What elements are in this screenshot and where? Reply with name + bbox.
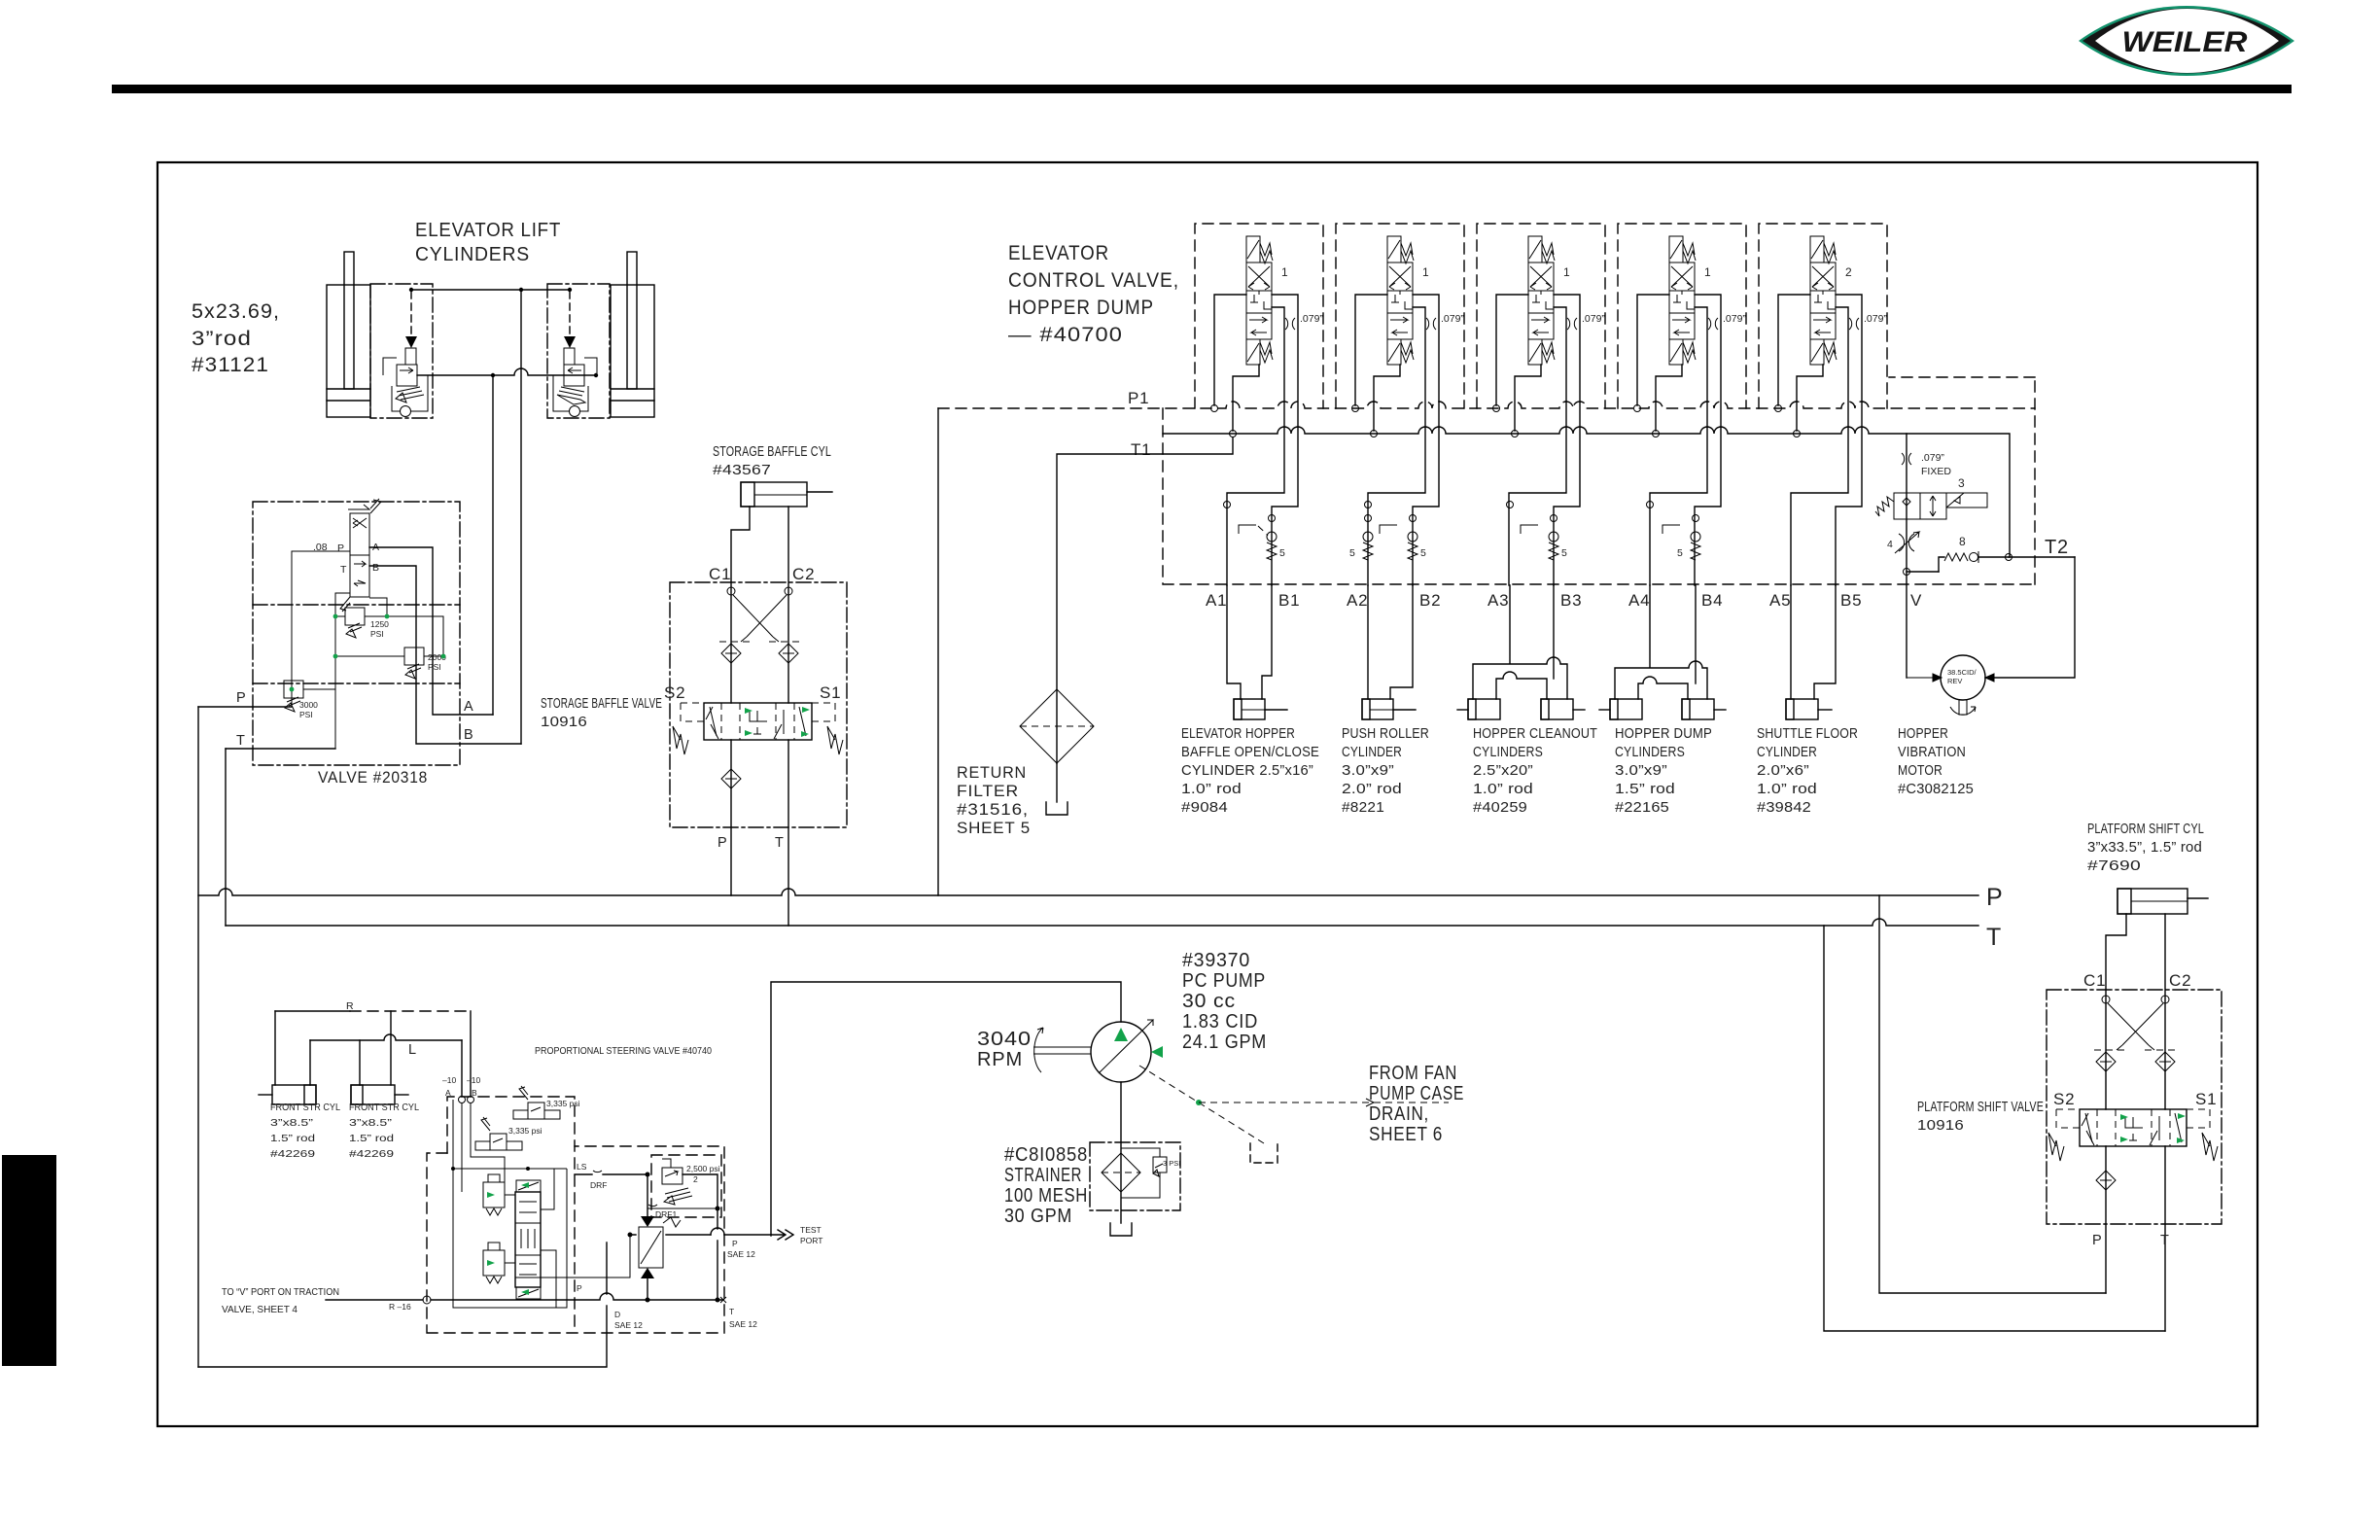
svg-text:5: 5	[1561, 547, 1567, 559]
svg-text:PLATFORM SHIFT CYL: PLATFORM SHIFT CYL	[2087, 822, 2204, 837]
svg-text:T2: T2	[2045, 537, 2069, 558]
svg-text:38.5CID/: 38.5CID/	[1947, 668, 1977, 677]
wire: R line	[275, 1010, 350, 1012]
svg-text:ELEVATOR LIFT: ELEVATOR LIFT	[415, 220, 561, 241]
wire: motor return to T2	[1985, 557, 2075, 678]
load check valve (section 4, B4)	[1662, 515, 1700, 561]
control valve section 1	[1195, 224, 1323, 585]
svg-text:T: T	[236, 733, 245, 749]
svg-text:#9084: #9084	[1181, 800, 1228, 816]
check valve 8	[1939, 535, 2009, 572]
svg-text:T: T	[340, 564, 347, 576]
svg-text:#39842: #39842	[1757, 800, 1811, 816]
svg-text:TO “V” PORT ON TRACTION: TO “V” PORT ON TRACTION	[222, 1286, 339, 1298]
svg-text:P: P	[2092, 1233, 2102, 1248]
platform shift directional valve body	[2048, 1109, 2218, 1161]
svg-text:.079”: .079”	[1723, 313, 1746, 325]
wire: rod-side interconnect between lift cylinders	[411, 289, 570, 291]
svg-text:B3: B3	[1560, 591, 1582, 610]
svg-text:–10: –10	[467, 1075, 480, 1085]
svg-text:S1: S1	[820, 683, 841, 702]
svg-text:5: 5	[1420, 547, 1426, 559]
svg-text:CONTROL VALVE,: CONTROL VALVE,	[1008, 269, 1179, 292]
wire: B1 work line to cylinder	[1262, 585, 1272, 699]
left edge black tab	[2, 1155, 56, 1366]
PC pump	[1033, 1020, 1163, 1082]
relief valve 3000 PSI	[284, 681, 335, 719]
elevator hopper baffle cylinder	[1234, 699, 1287, 719]
svg-text:ELEVATOR: ELEVATOR	[1008, 242, 1109, 264]
svg-text:A3: A3	[1487, 591, 1509, 610]
svg-text:T: T	[1986, 924, 2002, 951]
steering valve internal galleries	[453, 1100, 567, 1308]
svg-text:3.0”x9”: 3.0”x9”	[1615, 763, 1667, 779]
wire: valve 20318 work port B	[369, 566, 521, 744]
svg-text:PSI: PSI	[370, 629, 384, 639]
svg-text:LS: LS	[577, 1162, 587, 1172]
svg-text:#43567: #43567	[713, 463, 771, 478]
svg-text:2.5”x20”: 2.5”x20”	[1473, 763, 1533, 779]
svg-text:#C8I0858: #C8I0858	[1004, 1144, 1088, 1166]
pilot tap circles on A-lines	[1224, 502, 1231, 508]
svg-text:1.0” rod: 1.0” rod	[1181, 782, 1242, 797]
wire: platform C1 line	[2106, 914, 2126, 1109]
orifice .079 FIXED	[1902, 453, 1911, 465]
svg-text:B4: B4	[1701, 591, 1723, 610]
svg-text:#7690: #7690	[2087, 858, 2141, 874]
wire: P gallery inside valve 20318	[292, 551, 350, 707]
svg-text:A2: A2	[1347, 591, 1368, 610]
svg-text:HOPPER: HOPPER	[1898, 726, 1948, 742]
orifice diamond on P drop	[2096, 1171, 2116, 1190]
svg-text:FRONT STR CYL: FRONT STR CYL	[270, 1102, 340, 1113]
svg-text:S2: S2	[664, 683, 685, 702]
svg-text:B5: B5	[1840, 591, 1862, 610]
svg-text:A1: A1	[1206, 591, 1227, 610]
wire: A/B port drops	[462, 1011, 471, 1096]
svg-text:3,335 psi: 3,335 psi	[508, 1126, 542, 1136]
svg-text:VIBRATION: VIBRATION	[1898, 745, 1966, 760]
tank symbol (case drain)	[1250, 1143, 1277, 1163]
svg-text:T: T	[729, 1307, 734, 1316]
svg-text:PROPORTIONAL STEERING VALVE: PROPORTIONAL STEERING VALVE #40740	[535, 1045, 712, 1057]
svg-text:STORAGE BAFFLE CYL: STORAGE BAFFLE CYL	[713, 444, 831, 460]
storage baffle cylinder	[741, 482, 832, 507]
svg-text:CYLINDERS: CYLINDERS	[1615, 745, 1685, 760]
load check valve (section 1, B1)	[1239, 515, 1285, 561]
svg-text:3”x33.5”, 1.5” rod: 3”x33.5”, 1.5” rod	[2087, 840, 2202, 856]
svg-text:30 cc: 30 cc	[1182, 991, 1236, 1012]
svg-text:3”rod: 3”rod	[192, 328, 252, 350]
wire: D drain	[198, 1242, 607, 1367]
svg-text:#42269: #42269	[349, 1148, 394, 1160]
svg-text:2: 2	[1845, 265, 1852, 279]
green flow arrows (storage baffle valve)	[745, 708, 752, 714]
2-way valve 3	[1875, 476, 1987, 519]
wire: T drop to main tank line	[225, 749, 227, 926]
relief valve 3335 psi (lower)	[475, 1117, 542, 1150]
wire: L line	[310, 1034, 462, 1040]
svg-text:P: P	[577, 1283, 582, 1293]
svg-text:FROM FAN: FROM FAN	[1369, 1063, 1457, 1084]
svg-text:T: T	[775, 835, 784, 851]
junction dot LS-relief	[646, 1172, 650, 1177]
P1 pilot rail (dashed)	[938, 402, 2035, 408]
svg-text:#8221: #8221	[1342, 800, 1384, 816]
svg-text:#42269: #42269	[270, 1148, 315, 1160]
wire: platform T return to tank line	[1824, 926, 2165, 1331]
svg-text:.079”: .079”	[1864, 313, 1887, 325]
wire: valve 20318 work port A	[369, 547, 493, 715]
svg-text:#40259: #40259	[1473, 800, 1527, 816]
svg-text:L: L	[408, 1042, 416, 1058]
svg-text:T1: T1	[1131, 440, 1151, 459]
svg-text:DRAIN,: DRAIN,	[1369, 1103, 1429, 1125]
relief valve 3335 psi (upper)	[513, 1086, 580, 1119]
wire: relief to T	[682, 1174, 717, 1300]
wire: A2 work line	[1367, 585, 1369, 699]
control valve section 3	[1477, 224, 1605, 585]
wire: platform valve P drop	[2105, 1146, 2107, 1293]
svg-text:FIXED: FIXED	[1921, 466, 1951, 477]
svg-text:PSI: PSI	[299, 710, 313, 719]
wire: B2 work line	[1390, 585, 1413, 699]
svg-text:RETURN: RETURN	[957, 763, 1027, 782]
svg-text:PORT: PORT	[800, 1236, 822, 1245]
load check valve (section 2, A2)	[1349, 515, 1373, 561]
tank symbol (strainer)	[1110, 1223, 1132, 1236]
svg-text:5x23.69,: 5x23.69,	[192, 300, 280, 323]
wire: A5 work line	[1790, 585, 1792, 699]
svg-text:3040: 3040	[977, 1029, 1032, 1050]
svg-text:P: P	[337, 542, 344, 554]
svg-text:B2: B2	[1419, 591, 1441, 610]
svg-text:P: P	[1986, 884, 2004, 911]
schematic border frame	[157, 162, 2257, 1426]
storage baffle valve enclosure	[670, 582, 847, 827]
platform shift valve enclosure	[2047, 990, 2222, 1224]
svg-text:.079”: .079”	[1441, 313, 1464, 325]
svg-text:— #40700: — #40700	[1008, 324, 1123, 346]
svg-text:DRF: DRF	[590, 1180, 607, 1190]
orifice diamond on C2	[2155, 1052, 2175, 1071]
svg-text:#31121: #31121	[192, 354, 269, 376]
svg-text:WEILER: WEILER	[2122, 26, 2248, 58]
svg-text:SHEET 5: SHEET 5	[957, 819, 1031, 837]
elevator lift cylinder (right) body	[611, 252, 654, 417]
svg-text:FILTER: FILTER	[957, 782, 1019, 800]
svg-text:10916: 10916	[1917, 1118, 1964, 1134]
wire: A1 work line to cylinder	[1227, 585, 1241, 699]
svg-text:C1: C1	[709, 565, 731, 583]
svg-text:1.0” rod: 1.0” rod	[1757, 782, 1817, 797]
steering valve outer enclosure	[427, 1146, 724, 1333]
green flow arrows (platform shift valve)	[2120, 1114, 2128, 1120]
svg-text:T: T	[2160, 1233, 2169, 1248]
svg-text:PUSH ROLLER: PUSH ROLLER	[1342, 726, 1429, 742]
wire: cylinder 1 feeds	[275, 1011, 310, 1085]
wire: B3 work line + H-link	[1496, 585, 1554, 699]
svg-text:PUMP CASE: PUMP CASE	[1369, 1083, 1464, 1104]
strainer element	[1102, 1153, 1140, 1192]
svg-text:B: B	[464, 727, 473, 743]
wire: C1 line	[731, 507, 750, 703]
orifice diamond on C1	[721, 644, 741, 663]
tank rail T inside bank	[1163, 427, 2010, 557]
svg-text:2: 2	[693, 1174, 698, 1184]
load check valve (section 2, B2)	[1380, 515, 1426, 561]
svg-text:1.0” rod: 1.0” rod	[1473, 782, 1533, 797]
junction circles	[1904, 569, 1910, 576]
svg-text:FRONT STR CYL: FRONT STR CYL	[349, 1102, 419, 1113]
counterbalance valve block (left cylinder)	[370, 284, 433, 418]
svg-text:DRF1: DRF1	[655, 1209, 677, 1219]
svg-text:VALVE #20318: VALVE #20318	[318, 768, 428, 787]
svg-text:BAFFLE OPEN/CLOSE: BAFFLE OPEN/CLOSE	[1181, 745, 1319, 760]
svg-text:5: 5	[1349, 547, 1355, 559]
wire: T return line	[431, 1293, 723, 1300]
DRF1 orifice line	[647, 1207, 717, 1209]
pilot-to-open cross lines (platform shift valve)	[2094, 996, 2176, 1050]
orifice diamond on C2	[779, 644, 798, 663]
svg-text:2.0”x6”: 2.0”x6”	[1757, 763, 1809, 779]
shuttle floor cylinder	[1786, 699, 1832, 719]
svg-text:#31516,: #31516,	[957, 800, 1029, 819]
push roller cylinder	[1362, 699, 1416, 719]
svg-text:B: B	[372, 562, 379, 574]
svg-text:5: 5	[1677, 547, 1683, 559]
svg-text:30 GPM: 30 GPM	[1004, 1206, 1072, 1227]
svg-text:3 PSI: 3 PSI	[1163, 1159, 1180, 1168]
elevator lift cylinder (left) body	[327, 252, 370, 417]
control valve section 4	[1618, 224, 1746, 585]
load check valve (section 3, B3)	[1521, 515, 1567, 561]
svg-text:1250: 1250	[370, 619, 389, 629]
svg-text:CYLINDER 2.5”x16”: CYLINDER 2.5”x16”	[1181, 763, 1313, 779]
wire: B4 work line + H-link	[1638, 585, 1696, 699]
svg-text:SAE 12: SAE 12	[727, 1249, 755, 1259]
hopper cleanout cylinder (right)	[1541, 699, 1585, 719]
wire: T gallery inside valve 20318	[335, 593, 350, 749]
svg-text:1.83 CID: 1.83 CID	[1182, 1011, 1258, 1032]
steering valve left compartment	[447, 1097, 575, 1333]
junction dots (valve 20318)	[333, 614, 338, 619]
valve bank envelope (dashed)	[1163, 377, 2035, 584]
hopper vibration motor	[1907, 655, 1994, 715]
svg-text:R –16: R –16	[389, 1302, 411, 1312]
wire: R -16 supply	[326, 1299, 423, 1301]
svg-text:–10: –10	[442, 1075, 456, 1085]
wire: platform valve T drop	[2164, 1146, 2166, 1331]
svg-text:HOPPER DUMP: HOPPER DUMP	[1008, 297, 1154, 319]
wire: storage baffle valve T drop	[787, 740, 789, 926]
logic element (steering priority)	[639, 1174, 681, 1300]
orifice diamond on P drop	[721, 769, 741, 788]
pilot-to-open cross lines (storage baffle valve)	[719, 587, 800, 642]
wire: P1 drop to pressure line	[937, 408, 939, 895]
svg-text:2.0” rod: 2.0” rod	[1342, 782, 1402, 797]
svg-text:ELEVATOR HOPPER: ELEVATOR HOPPER	[1181, 726, 1295, 742]
wire: V supply line	[1906, 434, 1907, 678]
svg-text:P: P	[732, 1239, 738, 1248]
svg-text:STORAGE BAFFLE VALVE: STORAGE BAFFLE VALVE	[541, 696, 662, 712]
test port arrow	[771, 1230, 793, 1240]
svg-text:STRAINER: STRAINER	[1004, 1165, 1082, 1186]
svg-text:3: 3	[1958, 476, 1965, 490]
wire: cylinder 2 feeds	[360, 1011, 391, 1085]
svg-text:PSI: PSI	[428, 662, 441, 672]
svg-text:#C3082125: #C3082125	[1898, 782, 1974, 797]
main tank line T	[226, 919, 1978, 926]
svg-text:#22165: #22165	[1615, 800, 1669, 816]
WEILER logo	[2079, 6, 2294, 76]
strainer enclosure	[1090, 1142, 1180, 1210]
svg-text:1: 1	[1281, 265, 1288, 279]
svg-text:8: 8	[1959, 535, 1966, 548]
main pressure line P	[198, 889, 1978, 895]
hopper cleanout cylinder (left)	[1457, 699, 1500, 719]
control valve section 5	[1759, 224, 1887, 585]
solenoid valve (valve 20318 pilot)	[340, 499, 381, 612]
wire: storage baffle valve P drop	[730, 740, 732, 895]
wire: platform C2 line	[2164, 914, 2166, 1109]
svg-text:V: V	[1910, 591, 1922, 610]
wire: drop from piston-side line to valve 20318 port A	[492, 375, 494, 715]
wire: P line to test port	[630, 1234, 771, 1236]
wire: check-8 branch	[1907, 571, 1939, 573]
svg-text:C1: C1	[2083, 971, 2106, 990]
svg-text:PC PUMP: PC PUMP	[1182, 970, 1266, 992]
svg-text:PLATFORM SHIFT VALVE: PLATFORM SHIFT VALVE	[1917, 1100, 2044, 1115]
svg-text:P: P	[717, 835, 727, 851]
svg-text:3”x8.5”: 3”x8.5”	[349, 1117, 393, 1129]
hopper dump cylinder (left)	[1599, 699, 1642, 719]
svg-text:A4: A4	[1628, 591, 1650, 610]
svg-text:3”x8.5”: 3”x8.5”	[270, 1117, 314, 1129]
svg-text:B1: B1	[1278, 591, 1300, 610]
svg-text:.079”: .079”	[1300, 313, 1323, 325]
wire: P drop to main pressure line	[197, 707, 199, 1367]
svg-text:C2: C2	[2169, 971, 2191, 990]
svg-text:R: R	[346, 1000, 354, 1012]
port circles A B	[459, 1097, 466, 1103]
svg-text:SHEET 6: SHEET 6	[1369, 1124, 1443, 1145]
compensator valve (upper)	[483, 1174, 505, 1215]
platform shift cylinder	[2117, 889, 2208, 914]
svg-text:VALVE, SHEET 4: VALVE, SHEET 4	[222, 1304, 297, 1315]
strainer bypass relief 3 PSI	[1121, 1148, 1180, 1198]
T2 line	[2009, 556, 2075, 558]
svg-text:SAE 12: SAE 12	[729, 1319, 757, 1329]
svg-text:D: D	[614, 1310, 620, 1319]
front steering cylinder 2	[351, 1085, 408, 1104]
svg-text:4: 4	[1887, 539, 1893, 550]
orifice diamond on C1	[2096, 1052, 2116, 1071]
svg-text:SHUTTLE FLOOR: SHUTTLE FLOOR	[1757, 726, 1858, 742]
svg-text:1: 1	[1563, 265, 1570, 279]
wire: piston-side interconnect with crossover jump	[417, 368, 596, 375]
svg-text:1.5” rod: 1.5” rod	[270, 1133, 315, 1144]
svg-text:3000: 3000	[299, 700, 318, 710]
wire: platform P return to pressure line	[1879, 895, 2106, 1293]
svg-text:1: 1	[1422, 265, 1429, 279]
compensator valve (lower)	[483, 1242, 505, 1283]
svg-text:P1: P1	[1128, 389, 1149, 407]
relief valve 2000 PSI	[335, 616, 446, 679]
svg-text:10916: 10916	[541, 715, 587, 730]
svg-text:CYLINDERS: CYLINDERS	[415, 244, 530, 265]
relief valve 1250 PSI	[335, 598, 389, 639]
svg-text:1: 1	[1704, 265, 1711, 279]
svg-text:HOPPER DUMP: HOPPER DUMP	[1615, 726, 1712, 742]
svg-text:#39370: #39370	[1182, 950, 1250, 971]
svg-text:CYLINDERS: CYLINDERS	[1473, 745, 1543, 760]
adjustable orifice 4	[1887, 532, 1919, 553]
relief valve 2500 psi	[662, 1159, 720, 1205]
svg-text:.079”: .079”	[1582, 313, 1605, 325]
svg-text:24.1 GPM: 24.1 GPM	[1182, 1032, 1267, 1053]
hopper dump cylinder (right)	[1682, 699, 1726, 719]
relief valve 2500 psi enclosure	[651, 1155, 721, 1217]
svg-text:100 MESH: 100 MESH	[1004, 1185, 1088, 1207]
svg-text:TEST: TEST	[800, 1225, 822, 1235]
svg-text:CYLINDER: CYLINDER	[1757, 745, 1817, 760]
VALVE #20318 enclosure	[253, 502, 460, 765]
wire: A3 work line + H-link	[1473, 585, 1567, 699]
tank symbol (return filter)	[1046, 802, 1067, 815]
svg-text:1.5” rod: 1.5” rod	[349, 1133, 394, 1144]
svg-text:2,500 psi: 2,500 psi	[686, 1164, 720, 1173]
svg-text:SAE 12: SAE 12	[614, 1320, 643, 1330]
svg-text:REV: REV	[1947, 677, 1962, 685]
svg-text:C2: C2	[792, 565, 815, 583]
wire: pump pressure out	[771, 982, 1121, 1236]
svg-text:MOTOR: MOTOR	[1898, 763, 1942, 779]
svg-text:3.0”x9”: 3.0”x9”	[1342, 763, 1394, 779]
front steering cylinder 1	[259, 1085, 316, 1104]
svg-text:5: 5	[1279, 547, 1285, 559]
return filter	[1020, 689, 1094, 763]
svg-text:A: A	[464, 699, 473, 715]
wire: B5 work line	[1814, 585, 1836, 699]
svg-text:.079”: .079”	[1921, 452, 1944, 464]
pump case drain (dashed)	[1139, 1066, 1264, 1143]
svg-text:S2: S2	[2053, 1090, 2075, 1108]
counterbalance valve block (right cylinder)	[547, 284, 610, 418]
wire: A4 work line + H-link	[1615, 585, 1707, 699]
storage baffle directional valve body	[673, 703, 843, 754]
wire: C2 line	[787, 507, 789, 703]
svg-text:P: P	[236, 690, 246, 706]
control valve section 2	[1336, 224, 1464, 585]
wire: drop from rod-side line to valve 20318 port B	[520, 290, 522, 744]
svg-text:HOPPER CLEANOUT: HOPPER CLEANOUT	[1473, 726, 1597, 742]
svg-text:1.5” rod: 1.5” rod	[1615, 782, 1675, 797]
svg-text:S1: S1	[2195, 1090, 2217, 1108]
svg-text:A5: A5	[1769, 591, 1791, 610]
main steering spool	[505, 1169, 556, 1308]
svg-text:CYLINDER: CYLINDER	[1342, 745, 1402, 760]
wire: pump suction	[1120, 1082, 1122, 1223]
svg-text:RPM: RPM	[977, 1049, 1023, 1070]
svg-text:3,335 psi: 3,335 psi	[546, 1099, 580, 1108]
top rule bar	[112, 85, 2292, 93]
